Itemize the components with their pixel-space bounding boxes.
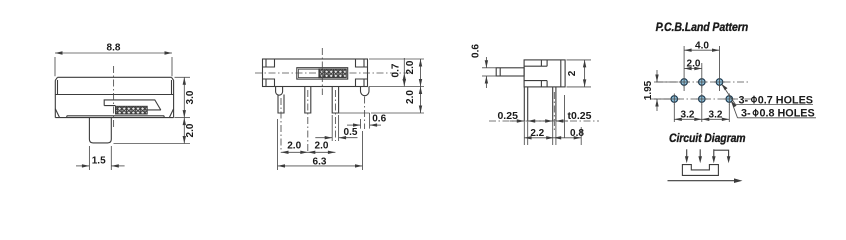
VIEW 2: dims 2.0 2.0 pins — [281, 141, 335, 154]
VIEW 3: dim t0.25 — [539, 110, 592, 123]
svg-text:2.0: 2.0 — [287, 141, 301, 152]
VIEW 3: body block — [524, 60, 565, 87]
VIEW 3: dim 2 right — [567, 60, 592, 87]
PCB: row center lines — [650, 82, 752, 99]
VIEW 2: dims 2.0 / 2.0 right — [405, 59, 422, 113]
VIEW 2: pin 2 — [305, 87, 311, 114]
PCB: leader 0.8 holes — [731, 101, 816, 120]
svg-text:3-: 3- — [739, 94, 749, 106]
Circuit: switch body — [682, 165, 718, 176]
VIEW 3: end view — [470, 44, 599, 145]
VIEW 2: dim 0.5 — [315, 115, 358, 141]
svg-text:0.7 HOLES: 0.7 HOLES — [758, 94, 813, 106]
VIEW 2: center lines — [255, 72, 410, 74]
VIEW 1: dim 1.5 — [76, 146, 125, 170]
svg-text:2.2: 2.2 — [530, 128, 544, 139]
PCB: dim 1.95 — [643, 70, 678, 111]
PCB: hole bottom 2 — [696, 94, 707, 105]
svg-text:2.0: 2.0 — [185, 123, 196, 137]
svg-text:2.0: 2.0 — [315, 141, 329, 152]
VIEW 2: pin center lines — [281, 90, 335, 153]
svg-text:0.5: 0.5 — [344, 127, 358, 138]
VIEW 2: front view body — [255, 48, 424, 170]
VIEW 2: dim 6.3 — [278, 119, 363, 170]
VIEW 2: pin 1 — [278, 95, 284, 114]
VIEW 3: PCB line — [489, 120, 599, 122]
PCB: dim 2.0 — [684, 59, 702, 71]
PCB: hole bottom 3 — [724, 94, 735, 105]
VIEW 3: dim 0.6 knob — [470, 44, 496, 88]
VIEW 2: right support leg — [361, 87, 370, 96]
VIEW 1: knob block hatched — [116, 106, 148, 114]
svg-text:0.8 HOLES: 0.8 HOLES — [760, 108, 815, 120]
VIEW 1: bottom chamfers — [55, 109, 173, 118]
VIEW 2: slider window — [297, 68, 348, 79]
VIEW 2: pin3 bottom extension — [339, 112, 370, 114]
PCB: hole top 1 — [679, 77, 690, 88]
svg-text:2.0: 2.0 — [405, 60, 416, 74]
Circuit: pin arrow 3 — [712, 149, 716, 163]
Circuit: branch arrow 4 — [714, 150, 731, 163]
VIEW 1: inner ledge — [67, 116, 164, 118]
PCB: dims 3.2 3.2 — [674, 104, 729, 122]
Circuit: pin arrow 1 — [685, 149, 689, 163]
svg-text:6.3: 6.3 — [313, 156, 327, 167]
svg-text:0.8: 0.8 — [570, 128, 584, 139]
VIEW 1: stem — [89, 118, 111, 143]
VIEW 3: dims 2.2 / 0.8 — [524, 127, 584, 145]
VIEW 2: dim 0.6 — [347, 113, 387, 129]
svg-text:4.0: 4.0 — [695, 40, 709, 51]
svg-text:3.2: 3.2 — [709, 109, 723, 120]
svg-text:2: 2 — [567, 70, 578, 76]
VIEW 3: knob bar — [496, 68, 524, 76]
PCB: hole top 2 — [696, 77, 707, 88]
svg-text:0.6: 0.6 — [470, 44, 481, 58]
svg-text:1.95: 1.95 — [643, 80, 654, 100]
PCB: column center lines — [684, 46, 719, 77]
VIEW 2: left support leg — [276, 87, 283, 96]
svg-text:8.8: 8.8 — [107, 43, 121, 54]
VIEW 2: dim 0.7 — [390, 58, 406, 87]
VIEW 2: leg center line right — [364, 97, 366, 130]
PCB: leader 0.7 holes — [721, 84, 813, 107]
VIEW 1: slider slot profile — [104, 100, 161, 110]
VIEW 1: side view body outline — [55, 43, 196, 170]
Circuit: pin arrow 2 — [698, 149, 702, 163]
svg-text:3.2: 3.2 — [681, 109, 695, 120]
VIEW 3: body edge extension — [564, 95, 566, 138]
svg-text:0.7: 0.7 — [390, 63, 401, 77]
VIEW 1: center line — [113, 66, 115, 128]
VIEW 2: pin 3 — [332, 87, 338, 114]
svg-text:2.0: 2.0 — [405, 90, 416, 104]
VIEW 2: right extension lines — [369, 59, 424, 113]
PCB: hole bottom 1 — [669, 94, 680, 105]
svg-text:1.5: 1.5 — [92, 156, 106, 167]
svg-text:0.6: 0.6 — [372, 114, 386, 125]
svg-text:P.C.B.Land Pattern: P.C.B.Land Pattern — [656, 20, 749, 34]
VIEW 3: left leg — [524, 87, 527, 121]
VIEW 1: dims 3.0 / 2.0 right — [114, 77, 196, 143]
Circuit: slide direction arrow — [668, 178, 743, 183]
svg-text:Circuit Diagram: Circuit Diagram — [669, 131, 746, 145]
VIEW 1: dim 8.8 — [55, 43, 172, 77]
svg-text:t0.25: t0.25 — [568, 110, 592, 122]
VIEW 3: pin — [553, 87, 556, 121]
PCB: dim 4.0 — [684, 40, 719, 52]
svg-text:0.25: 0.25 — [497, 110, 518, 122]
svg-text:3.0: 3.0 — [185, 90, 196, 104]
PCB: hole top 3 — [714, 77, 725, 88]
svg-text:3-: 3- — [741, 108, 751, 120]
svg-text:2.0: 2.0 — [687, 59, 701, 70]
VIEW 3: dim 0.25 left — [497, 110, 541, 123]
VIEW 2: corner ears — [263, 59, 368, 87]
